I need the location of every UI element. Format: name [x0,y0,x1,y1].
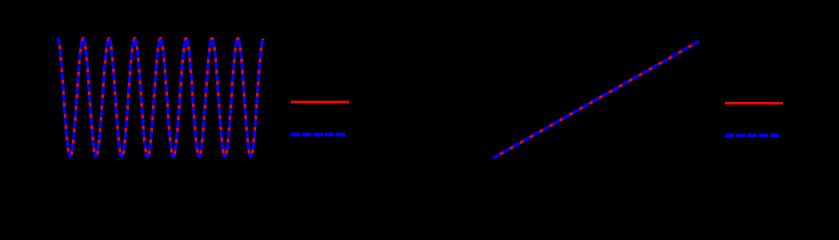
right subplot: blue dashed straight line (overlaid) [493,41,698,158]
left legend: red sample line [291,101,349,104]
right subplot: red solid straight line [493,41,698,158]
right legend: red sample line [725,102,783,105]
left subplot: red solid sine curve [57,38,263,156]
left legend: blue dashed sample line [291,133,347,137]
left subplot: blue dashed sine curve (overlaid) [57,38,263,156]
right legend: blue dashed sample line [725,134,781,138]
